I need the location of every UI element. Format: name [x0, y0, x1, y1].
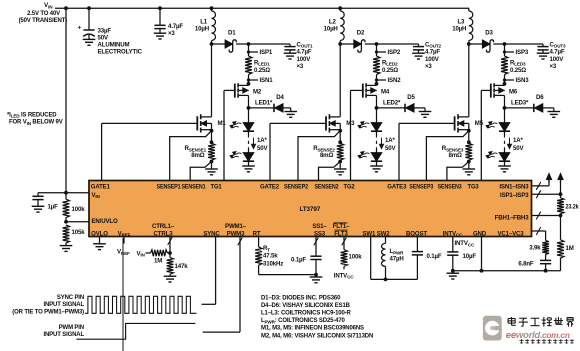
ground 147k — [164, 276, 177, 282]
ground for 105k — [60, 246, 73, 252]
wire LED3* to D6 — [505, 107, 534, 109]
label L3 — [452, 18, 466, 32]
node VIN rail taps — [64, 6, 342, 10]
LED3 string diode A — [486, 122, 510, 132]
wire SENSEN1 — [190, 162, 211, 181]
wire RLED3 to ISN3 — [504, 75, 506, 84]
node ISP3 — [503, 42, 507, 46]
label 3.9k — [529, 244, 541, 251]
label COUT3 — [550, 41, 567, 70]
label 105k — [72, 229, 86, 236]
node ISP2 — [375, 42, 379, 46]
transistor M4 PMOS — [363, 83, 377, 98]
node LED2* — [375, 106, 379, 110]
label BOOST 0.1uF — [427, 253, 442, 260]
transistor M2 PMOS — [235, 83, 249, 98]
label SS 0.1uF — [291, 256, 306, 263]
LED2 string diode A — [358, 122, 382, 132]
capacitor COUT2 — [413, 44, 424, 53]
svg-text:100k: 100k — [72, 206, 86, 213]
svg-text:FLT1–: FLT1– — [333, 223, 351, 230]
wire TG2 gate lead — [351, 90, 363, 180]
svg-text:ELECTROLYTIC: ELECTROLYTIC — [98, 49, 143, 56]
node ISP1 — [247, 42, 251, 46]
label VIN supply — [44, 2, 53, 9]
svg-text:ISN2: ISN2 — [388, 77, 402, 84]
svg-text:4.7µF: 4.7µF — [425, 49, 440, 56]
resistor RSENSE3 8mohm — [465, 143, 472, 161]
node M1 source — [210, 129, 214, 144]
svg-text:LED1*: LED1* — [255, 100, 273, 107]
pin wire ISN1-ISN3 — [532, 178, 550, 190]
pin wire SS1-SS3 — [314, 237, 319, 257]
pin wire FLT1-FLT3 — [342, 237, 347, 250]
label ISN1 — [260, 77, 274, 84]
LED2 string diode B — [358, 152, 382, 162]
overline FLT1-FLT3 — [334, 223, 348, 230]
label 1M ctrl — [154, 257, 162, 264]
resistor RT 47.5k — [255, 247, 262, 275]
wire ground bus right — [453, 270, 561, 272]
wire D2 to node — [365, 43, 377, 45]
wire dashed LED string 3 — [504, 131, 506, 152]
svg-text:SENSEN3: SENSEN3 — [438, 184, 463, 191]
ground D6 — [548, 112, 561, 118]
svg-text:SYNC PIN: SYNC PIN — [57, 295, 84, 301]
svg-text:1µF: 1µF — [48, 204, 59, 211]
node M5 source — [467, 129, 471, 144]
wire LED2 cathode — [376, 161, 378, 166]
node GND bus — [480, 269, 484, 273]
label pin VIN inside — [92, 192, 101, 199]
svg-text:GATE2: GATE2 — [260, 184, 280, 191]
label ISP1 — [260, 49, 273, 56]
svg-text:L1: L1 — [200, 18, 208, 25]
resistor FLT 100k — [341, 250, 348, 270]
wire M4 drain — [376, 98, 378, 108]
svg-text:L3: L3 — [457, 18, 465, 25]
svg-text:M6: M6 — [509, 89, 518, 96]
wire node to COUT2 — [377, 43, 419, 45]
ground COUT1 — [284, 53, 297, 59]
svg-text:3.9k: 3.9k — [529, 244, 541, 251]
svg-text:50V: 50V — [257, 145, 268, 152]
svg-text:4.7µF: 4.7µF — [168, 23, 183, 30]
svg-text:×3: ×3 — [168, 30, 175, 37]
wire L2 to M3 drain — [339, 44, 341, 117]
node M3 source — [338, 129, 342, 144]
label 6.8nF — [518, 260, 534, 267]
waveform PWM step — [76, 323, 195, 339]
svg-text:TG1: TG1 — [211, 184, 223, 191]
diode D1 schottky — [225, 40, 236, 52]
pin wire ISP1-ISP3 — [532, 190, 561, 198]
svg-text:×3: ×3 — [297, 63, 304, 70]
label M2 — [253, 89, 262, 96]
svg-text:BOOST: BOOST — [406, 230, 427, 237]
diode D4 clamp — [274, 104, 283, 112]
svg-text:×3: ×3 — [425, 63, 432, 70]
labels chip bottom pin row — [91, 223, 524, 238]
pin stub ISN1 — [247, 78, 258, 81]
svg-text:LPWR: COILTRONICS SD25-470: LPWR: COILTRONICS SD25-470 — [261, 318, 346, 324]
label VIN range — [19, 11, 68, 24]
wire dashed LED string 2 — [376, 131, 378, 152]
ground RSENSE1 — [205, 162, 218, 175]
resistor 1M right — [557, 216, 564, 271]
wire SENSEP1 — [170, 131, 212, 181]
label SYNC PIN — [12, 295, 84, 315]
label M4 — [381, 89, 390, 96]
node M4 source — [375, 82, 379, 86]
wire node to COUT1 — [249, 43, 291, 45]
label D2 — [357, 30, 365, 37]
svg-text:SENSEN1: SENSEN1 — [182, 184, 207, 191]
resistor 23.2k — [557, 194, 564, 215]
label M6 — [509, 89, 518, 96]
labels chip top pin row — [91, 184, 479, 191]
svg-text:D5: D5 — [407, 94, 415, 101]
svg-text:ISN1–ISN3: ISN1–ISN3 — [499, 184, 529, 191]
wire ISP3 column — [504, 44, 506, 56]
inductor L1 10uH — [212, 8, 216, 44]
svg-text:33µF: 33µF — [98, 28, 112, 35]
label pin FBH1-FBH3 — [495, 214, 530, 221]
svg-text:INPUT SIGNAL: INPUT SIGNAL — [43, 332, 84, 338]
svg-text:SYNC: SYNC — [203, 230, 220, 237]
node L3 bottom — [467, 42, 471, 46]
node LPWR bottom — [384, 278, 388, 282]
svg-text:GATE3: GATE3 — [387, 184, 407, 191]
label M5 — [475, 120, 484, 127]
diode D5 clamp — [405, 104, 414, 112]
svg-text:D1: D1 — [228, 30, 236, 37]
svg-text:1M: 1M — [566, 245, 574, 252]
wire LED2* to D5 — [377, 107, 406, 109]
svg-text:VC1–VC3: VC1–VC3 — [497, 230, 524, 237]
wire 4.7uF cap stem — [159, 8, 161, 25]
wire L2 to D2 — [340, 43, 354, 45]
ground D5 — [419, 112, 432, 118]
capacitor 1uF — [32, 196, 43, 206]
capacitor 4.7uF x3 — [154, 25, 165, 33]
label L2 — [324, 18, 338, 32]
capacitor 6.8nF — [540, 260, 551, 270]
svg-text:D6: D6 — [536, 94, 544, 101]
label LED2* — [383, 100, 401, 107]
svg-text:47µH: 47µH — [390, 255, 404, 262]
wire dashed LED string 1 — [248, 131, 250, 152]
pin wire BOOST — [416, 237, 418, 252]
svg-text:4.7µF: 4.7µF — [550, 49, 565, 56]
svg-text:4.7µF: 4.7µF — [297, 49, 312, 56]
svg-text:ISP1–ISP3: ISP1–ISP3 — [500, 192, 529, 199]
label INTVCC flt — [334, 272, 354, 279]
svg-text:eeworld.com.cn: eeworld.com.cn — [506, 330, 570, 341]
label PWM PIN — [43, 325, 84, 338]
node LED1* — [247, 106, 251, 110]
resistor RSENSE1 8mohm — [208, 143, 215, 161]
pin wire INTVCC — [452, 237, 454, 252]
inductor L3 10uH — [469, 8, 473, 44]
svg-text:M3: M3 — [346, 120, 355, 127]
pin stub ISP2 — [375, 50, 386, 53]
pin wire SW2 — [385, 237, 387, 244]
label M3 — [346, 120, 355, 127]
wire SENSEN3 — [447, 162, 469, 181]
label 1uF — [48, 204, 59, 211]
label pin ISN1-ISN3 — [499, 184, 529, 191]
svg-text:ALUMINUM: ALUMINUM — [98, 42, 130, 49]
svg-text:23.2k: 23.2k — [566, 203, 580, 210]
capacitor BOOST 0.1uF — [412, 252, 423, 280]
label M1 — [218, 120, 227, 127]
label ISP3 — [516, 49, 529, 56]
wire VIN left drop — [65, 8, 67, 193]
svg-text:50V: 50V — [385, 145, 396, 152]
svg-text:8mΩ: 8mΩ — [449, 152, 463, 159]
svg-text:FBH1–FBH3: FBH1–FBH3 — [495, 214, 530, 221]
svg-text:M5: M5 — [475, 120, 484, 127]
label 10uF — [463, 253, 477, 260]
wire 33uF cap stem — [88, 8, 90, 30]
wire RLED1 to ISN1 — [248, 75, 250, 84]
current arrow 1A 1 — [252, 138, 256, 149]
label RLED2 — [382, 59, 398, 73]
svg-text:OVLO: OVLO — [91, 230, 108, 237]
wire LED2 anode — [376, 108, 378, 123]
pin wire SW1 — [370, 237, 372, 280]
node RSENSE2 bottom — [338, 160, 342, 164]
wire GATE1 lead — [102, 123, 198, 180]
current arrow 1A 3 — [508, 138, 512, 149]
wire D1 to node — [236, 43, 249, 45]
label VREF below — [117, 249, 130, 256]
label ISN3 — [516, 77, 530, 84]
label D3 — [485, 30, 493, 37]
ground for 1uF — [32, 206, 45, 212]
svg-text:*ILED IS REDUCED: *ILED IS REDUCED — [7, 112, 57, 118]
svg-text:GATE1: GATE1 — [91, 184, 111, 191]
label 23.2k — [566, 203, 580, 210]
ground for 33uF — [83, 39, 96, 45]
resistor RLED2 0.25ohm — [373, 56, 380, 75]
label RSENSE2 — [313, 145, 335, 159]
parts list text — [261, 295, 373, 339]
svg-text:EN/UVLO: EN/UVLO — [92, 218, 118, 225]
ground INTVCC — [447, 271, 460, 279]
svg-text:8mΩ: 8mΩ — [191, 152, 205, 159]
inductor L2 10uH — [340, 8, 344, 44]
svg-text:8mΩ: 8mΩ — [320, 152, 334, 159]
pin wire OVLO — [99, 237, 101, 244]
label ISN2 — [388, 77, 402, 84]
label D6 — [536, 94, 544, 101]
label 147k — [175, 263, 189, 270]
label 1A* 50V ch3 — [513, 137, 524, 152]
svg-text:100V: 100V — [425, 56, 440, 63]
wire D3 to node — [493, 43, 504, 45]
wire SW bottom bus — [371, 278, 418, 280]
label 4.7uF x3 — [168, 23, 183, 37]
wire LED3 anode — [504, 108, 506, 123]
node INTVCC gnd — [451, 269, 455, 273]
pin stub ISN3 — [503, 78, 514, 81]
wire M6 drain — [504, 98, 506, 108]
ground OVLO — [93, 244, 106, 250]
wire EN/UVLO to chip — [66, 221, 89, 223]
svg-text:SW1 SW2: SW1 SW2 — [362, 230, 390, 237]
svg-text:PWM PIN: PWM PIN — [59, 325, 84, 331]
svg-text:100k: 100k — [349, 253, 363, 260]
wire SENSEN2 — [319, 162, 341, 181]
resistor 3.9k — [542, 241, 549, 261]
capacitor COUT3 — [537, 44, 548, 53]
pin wire CTRL1-CTRL3 — [168, 237, 173, 254]
svg-text:SENSEN2: SENSEN2 — [315, 184, 340, 191]
ground RSENSE2 — [334, 162, 347, 175]
wire L3 to M5 drain — [468, 44, 470, 117]
label VIN ctrl — [137, 250, 146, 257]
svg-text:6.8nF: 6.8nF — [518, 260, 534, 267]
capacitor INTVCC 10uF — [447, 252, 458, 271]
pin wire RT — [258, 237, 260, 248]
svg-text:×3: ×3 — [550, 63, 557, 70]
label FLT 100k — [349, 253, 363, 260]
ground COUT3 — [537, 53, 550, 59]
label RSENSE1 — [185, 145, 207, 159]
ground D4 — [284, 112, 297, 118]
node RSENSE3 bottom — [467, 160, 471, 164]
waveform SYNC square wave — [85, 296, 197, 313]
svg-text:FOR VIN BELOW 9V: FOR VIN BELOW 9V — [9, 120, 63, 126]
LED3 string diode B — [486, 152, 510, 162]
fold mark faint line — [122, 238, 124, 351]
pin wire VC1-VC3 — [532, 227, 546, 240]
svg-text:10µH: 10µH — [324, 26, 338, 33]
svg-text:M1, M3, M5: INFINEON BSC039N06: M1, M3, M5: INFINEON BSC039N06NS — [261, 326, 364, 332]
svg-text:100V: 100V — [550, 56, 565, 63]
svg-text:M2, M4, M6: VISHAY SILICONIX S: M2, M4, M6: VISHAY SILICONIX Si7113DN — [261, 333, 373, 339]
label pin ISP1-ISP3 — [500, 192, 529, 199]
label 100k — [72, 206, 86, 213]
node M6 source — [503, 82, 507, 86]
svg-text:50V: 50V — [513, 145, 524, 152]
svg-text:FLT3: FLT3 — [334, 230, 348, 237]
wire D5 to ground — [414, 108, 425, 112]
pin wire SYNC — [202, 237, 216, 305]
diode D2 schottky — [354, 40, 365, 52]
svg-text:0.1µF: 0.1µF — [427, 253, 442, 260]
svg-text:D3: D3 — [485, 30, 493, 37]
label LED3* — [511, 100, 529, 107]
svg-text:(OR TIE TO PWM1–PWM3): (OR TIE TO PWM1–PWM3) — [12, 309, 84, 315]
label L1 — [195, 18, 209, 32]
label 1A* 50V ch2 — [385, 137, 396, 152]
label D5 — [407, 94, 415, 101]
resistor 100k — [63, 193, 70, 222]
svg-text:ISP1: ISP1 — [260, 49, 273, 56]
wire RT to SS ground bus — [259, 274, 316, 276]
wire LED1 anode — [248, 108, 250, 123]
label INTVCC below chip — [455, 240, 475, 247]
pin wire GND — [481, 237, 483, 271]
ground for 4.7uF — [154, 33, 167, 39]
label RLED1 — [254, 59, 270, 73]
svg-text:SS1–: SS1– — [312, 223, 327, 230]
label ISP2 — [388, 49, 401, 56]
svg-text:TG3: TG3 — [468, 184, 480, 191]
ground COUT2 — [412, 53, 425, 59]
node RSENSE1 bottom — [210, 160, 214, 164]
svg-text:PWM3: PWM3 — [227, 230, 245, 237]
svg-text:PWM1–: PWM1– — [225, 223, 247, 230]
svg-text:0.25Ω: 0.25Ω — [382, 67, 398, 74]
wire VIN to 1M — [146, 252, 151, 254]
svg-text:D1–D3: DIODES INC. PDS360: D1–D3: DIODES INC. PDS360 — [261, 295, 341, 301]
resistor RLED3 0.25ohm — [501, 56, 508, 75]
wire SENSEP2 — [298, 131, 340, 181]
svg-text:1M: 1M — [154, 257, 162, 264]
inductor LPWR 47uH — [382, 243, 386, 279]
svg-text:10µF: 10µF — [463, 253, 477, 260]
label RLED3 — [510, 59, 526, 73]
svg-text:M1: M1 — [218, 120, 227, 127]
diode D3 schottky — [482, 40, 493, 52]
transistor M1 NMOS — [197, 114, 211, 132]
svg-text:ISP3: ISP3 — [516, 49, 529, 56]
node L2 bottom — [338, 42, 342, 46]
label RSENSE3 — [442, 145, 464, 159]
node M2 source — [247, 82, 251, 86]
wire ISP2 column — [376, 44, 378, 56]
capacitor COUT1 — [284, 44, 295, 53]
svg-text:10µH: 10µH — [452, 26, 466, 33]
svg-text:LED3*: LED3* — [511, 100, 529, 107]
label COUT2 — [425, 41, 442, 70]
svg-text:SENSEP1: SENSEP1 — [157, 184, 182, 191]
pin stub ISP3 — [503, 50, 514, 53]
pin wire VREF — [123, 237, 125, 244]
wire LED1 cathode — [248, 161, 250, 166]
label D1 — [228, 30, 236, 37]
ground SS — [310, 275, 323, 283]
wire D6 to ground — [543, 108, 554, 112]
label LT3797 — [300, 206, 321, 213]
svg-text:100V: 100V — [297, 56, 312, 63]
capacitor SS 0.1uF — [310, 256, 321, 274]
wire L3 to D3 — [469, 43, 483, 45]
svg-text:+: + — [78, 25, 82, 32]
wire TG3 gate lead — [481, 90, 491, 180]
current arrow 1A 2 — [380, 138, 384, 149]
transistor M6 PMOS — [491, 83, 505, 98]
pin wire FBH1-FBH3 — [532, 212, 561, 220]
svg-text:0.25Ω: 0.25Ω — [510, 67, 526, 74]
svg-text:0.25Ω: 0.25Ω — [254, 67, 270, 74]
node VIN divider top — [64, 191, 68, 195]
wire D4 to ground — [283, 108, 291, 112]
svg-text:147k: 147k — [175, 263, 189, 270]
LED1 string diode B — [230, 152, 254, 162]
node LED3* — [503, 106, 507, 110]
ground LED2 string — [370, 166, 383, 172]
svg-text:M4: M4 — [381, 89, 390, 96]
label pin EN/UVLO — [92, 218, 118, 225]
wire SENSEP3 — [426, 131, 468, 181]
svg-text:GND: GND — [473, 230, 487, 237]
pin stub ISN2 — [375, 78, 386, 81]
